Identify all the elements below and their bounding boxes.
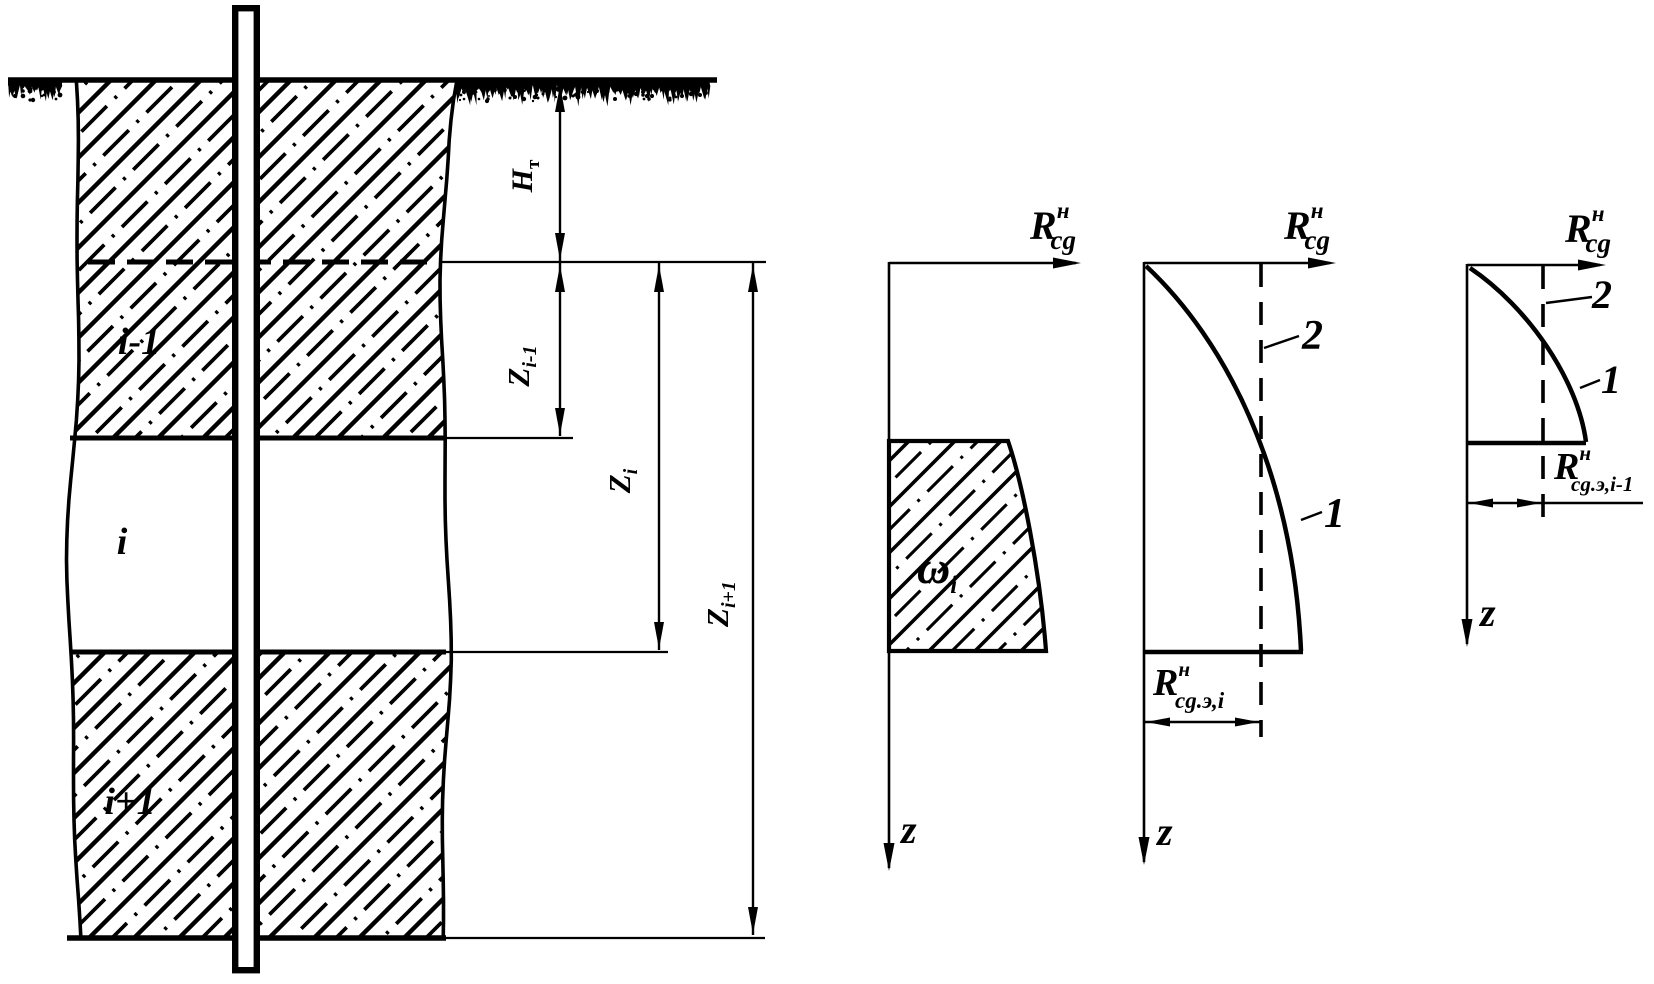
soil block right wavy edge xyxy=(440,80,457,940)
svg-text:i-1: i-1 xyxy=(118,321,160,363)
frost depth dashed line H_T level xyxy=(88,260,441,265)
graph B leader to label 1 xyxy=(1301,512,1322,520)
graph B dashed line 2 xyxy=(1259,264,1263,737)
svg-text:z: z xyxy=(899,807,917,852)
graph B leader to label 2 xyxy=(1264,336,1299,348)
svg-text:Rнcg: Rнcg xyxy=(1029,198,1076,255)
dimension line Z_i xyxy=(658,262,660,650)
graph C leader to label 2 xyxy=(1546,297,1592,303)
svg-text:i+1: i+1 xyxy=(104,781,155,823)
svg-text:Rнcg: Rнcg xyxy=(1283,198,1330,255)
dimension line Z_i+1 xyxy=(752,262,754,935)
graph B horizontal axis R_cg xyxy=(1144,262,1330,265)
svg-text:z: z xyxy=(1478,590,1496,635)
hatching frozen soil layer i+1 xyxy=(0,648,739,942)
hatching frozen soil layer i-1 xyxy=(0,75,814,445)
graph C horizontal axis R_cg xyxy=(1467,264,1600,267)
svg-text:Rнcg: Rнcg xyxy=(1564,201,1611,258)
graph C leader to label 1 xyxy=(1580,380,1600,388)
dimension line Z_i-1 xyxy=(559,262,561,436)
graph A hatching of omega_i area xyxy=(690,435,1260,660)
graph B curve 1 xyxy=(1146,266,1301,651)
bottom line of layer i+1 xyxy=(67,935,446,941)
ground surface texture left xyxy=(8,80,62,102)
graph B vertical axis z xyxy=(1143,262,1146,862)
ground surface texture right xyxy=(455,80,710,107)
graph A horizontal axis R_cg xyxy=(889,262,1076,265)
graph C dimension R_cg.э,i-1 xyxy=(1467,502,1643,504)
graph B bottom line xyxy=(1144,650,1303,655)
svg-text:i: i xyxy=(117,521,128,563)
svg-text:1: 1 xyxy=(1601,357,1621,402)
svg-text:2: 2 xyxy=(1591,272,1612,317)
soil block left wavy edge xyxy=(67,80,82,940)
layer boundary bottom of i-1 xyxy=(70,436,446,441)
svg-text:2: 2 xyxy=(1301,313,1323,359)
graph A vertical axis z xyxy=(888,262,891,868)
graph C dashed line 2 xyxy=(1541,266,1545,530)
dimension line H_T xyxy=(559,84,561,262)
svg-text:1: 1 xyxy=(1324,491,1345,537)
graph C curve 1 xyxy=(1470,268,1586,442)
ground surface line xyxy=(8,77,717,83)
graph B dimension R_cg.э,i xyxy=(1144,721,1261,723)
graph C vertical axis z xyxy=(1466,264,1469,644)
graph C bottom line xyxy=(1467,441,1586,446)
layer boundary bottom of i xyxy=(70,650,446,655)
svg-text:z: z xyxy=(1155,809,1173,854)
pile xyxy=(235,8,257,970)
graph A omega_i area outline xyxy=(889,441,1046,651)
